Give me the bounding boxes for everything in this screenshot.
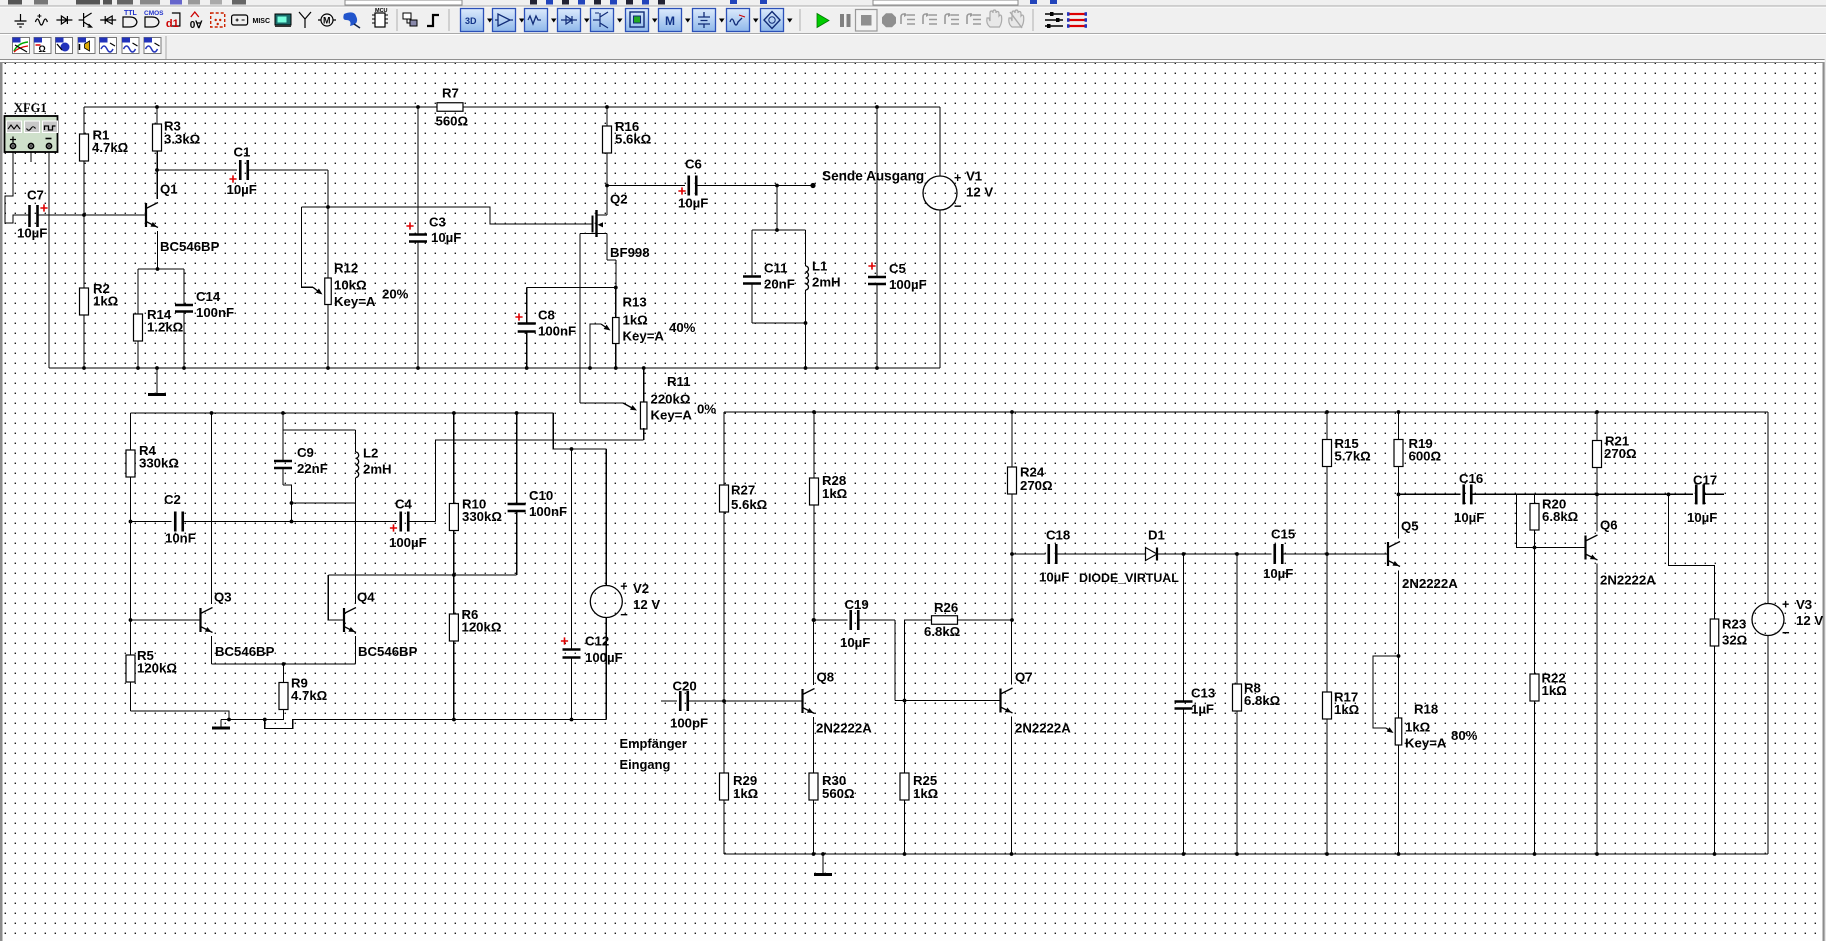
svg-text:M: M — [323, 16, 331, 26]
svg-text:C17: C17 — [1693, 473, 1717, 488]
svg-text:C19: C19 — [845, 597, 869, 612]
svg-text:0%: 0% — [697, 402, 716, 417]
svg-text:120kΩ: 120kΩ — [462, 620, 502, 635]
svg-text:1kΩ: 1kΩ — [822, 486, 848, 501]
svg-text:d1: d1 — [166, 18, 179, 30]
svg-text:10nF: 10nF — [165, 531, 196, 546]
svg-text:6.8kΩ: 6.8kΩ — [924, 624, 961, 639]
svg-text:1kΩ: 1kΩ — [1334, 702, 1360, 717]
svg-text:−: − — [620, 607, 628, 622]
svg-text:V1: V1 — [966, 169, 982, 184]
svg-text:100nF: 100nF — [538, 324, 576, 339]
svg-text:C16: C16 — [1459, 471, 1483, 486]
svg-text:C10: C10 — [529, 488, 553, 503]
svg-text:C8: C8 — [538, 308, 555, 323]
svg-text:CMOS: CMOS — [144, 10, 164, 17]
svg-text:C14: C14 — [196, 289, 221, 304]
svg-text:L2: L2 — [363, 446, 378, 461]
svg-text:330kΩ: 330kΩ — [139, 456, 179, 471]
svg-text:4.7kΩ: 4.7kΩ — [291, 688, 328, 703]
svg-text:3.3kΩ: 3.3kΩ — [164, 131, 201, 146]
svg-text:1kΩ: 1kΩ — [93, 294, 119, 309]
svg-text:1.2kΩ: 1.2kΩ — [147, 320, 184, 335]
svg-text:D1: D1 — [1148, 528, 1165, 543]
svg-text:10µF: 10µF — [840, 635, 870, 650]
svg-text:V3: V3 — [1796, 597, 1812, 612]
svg-text:C7: C7 — [27, 188, 44, 203]
svg-text:C3: C3 — [429, 215, 446, 230]
svg-text:C6: C6 — [685, 157, 702, 172]
svg-text:XFG1: XFG1 — [14, 101, 47, 115]
svg-text:10µF: 10µF — [227, 182, 257, 197]
svg-text:10µF: 10µF — [1454, 510, 1484, 525]
svg-text:Key=A: Key=A — [651, 408, 693, 423]
svg-text:100µF: 100µF — [389, 535, 427, 550]
svg-text:220kΩ: 220kΩ — [651, 392, 691, 407]
svg-text:R18: R18 — [1414, 702, 1438, 717]
svg-text:R23: R23 — [1722, 616, 1746, 631]
svg-text:Eingang: Eingang — [620, 757, 671, 772]
svg-text:MCU: MCU — [375, 8, 388, 14]
svg-text:C9: C9 — [297, 445, 314, 460]
svg-text:Empfänger: Empfänger — [620, 736, 687, 751]
svg-text:−: − — [1782, 625, 1790, 640]
svg-text:6.8kΩ: 6.8kΩ — [1542, 509, 1579, 524]
svg-text:C5: C5 — [889, 261, 906, 276]
svg-text:C13: C13 — [1191, 686, 1215, 701]
svg-text:R13: R13 — [623, 295, 647, 310]
svg-text:1kΩ: 1kΩ — [1405, 720, 1431, 735]
svg-text:C15: C15 — [1271, 527, 1295, 542]
svg-text:Q8: Q8 — [817, 670, 835, 685]
svg-text:5.7kΩ: 5.7kΩ — [1335, 449, 1372, 464]
svg-text:L1: L1 — [812, 259, 827, 274]
svg-text:−: − — [954, 199, 962, 214]
svg-text:3D: 3D — [465, 16, 477, 26]
svg-text:100pF: 100pF — [670, 716, 708, 731]
svg-text:330kΩ: 330kΩ — [462, 509, 502, 524]
svg-text:100nF: 100nF — [529, 504, 567, 519]
svg-text:C20: C20 — [673, 679, 697, 694]
svg-text:100µF: 100µF — [585, 650, 623, 665]
svg-text:2N2222A: 2N2222A — [1600, 573, 1656, 588]
svg-text:R12: R12 — [334, 261, 358, 276]
svg-text:+: + — [1782, 598, 1789, 612]
svg-text:C11: C11 — [764, 261, 787, 276]
svg-text:20nF: 20nF — [764, 277, 795, 292]
svg-text:C12: C12 — [585, 634, 609, 649]
svg-text:+: + — [620, 580, 627, 594]
svg-text:10µF: 10µF — [678, 196, 708, 211]
svg-text:5.6kΩ: 5.6kΩ — [731, 497, 768, 512]
svg-text:2mH: 2mH — [812, 275, 841, 290]
svg-text:12 V: 12 V — [1796, 613, 1823, 628]
svg-text:R26: R26 — [934, 600, 958, 615]
svg-text:DIODE_VIRTUAL: DIODE_VIRTUAL — [1079, 571, 1179, 585]
svg-text:4.7kΩ: 4.7kΩ — [92, 140, 129, 155]
svg-text:100nF: 100nF — [196, 305, 234, 320]
svg-text:560Ω: 560Ω — [822, 786, 855, 801]
svg-text:Q2: Q2 — [610, 192, 628, 207]
svg-text:C18: C18 — [1046, 528, 1070, 543]
svg-text:10µF: 10µF — [1263, 566, 1293, 581]
svg-text:270Ω: 270Ω — [1604, 446, 1637, 461]
svg-text:10kΩ: 10kΩ — [334, 278, 367, 293]
svg-text:10µF: 10µF — [1687, 510, 1717, 525]
svg-text:C4: C4 — [395, 497, 413, 512]
svg-text:R27: R27 — [731, 483, 755, 498]
svg-text:100µF: 100µF — [889, 277, 927, 292]
svg-text:2N2222A: 2N2222A — [1402, 576, 1458, 591]
svg-text:R7: R7 — [442, 86, 459, 101]
svg-text:20%: 20% — [382, 287, 409, 302]
svg-text:1kΩ: 1kΩ — [1542, 683, 1568, 698]
svg-text:560Ω: 560Ω — [436, 114, 469, 129]
svg-text:Q4: Q4 — [357, 590, 375, 605]
svg-text:Sende Ausgang: Sende Ausgang — [822, 168, 924, 183]
svg-text:1µF: 1µF — [1191, 702, 1214, 717]
svg-text:Key=A: Key=A — [623, 329, 665, 344]
svg-text:2mH: 2mH — [363, 462, 392, 477]
svg-text:MISC: MISC — [253, 18, 271, 25]
svg-text:Q5: Q5 — [1401, 519, 1419, 534]
svg-text:BC546BP: BC546BP — [358, 644, 418, 659]
svg-text:600Ω: 600Ω — [1409, 449, 1442, 464]
svg-text:BC546BP: BC546BP — [160, 239, 220, 254]
svg-text:22nF: 22nF — [297, 461, 328, 476]
svg-text:0∀: 0∀ — [190, 20, 204, 31]
svg-text:C1: C1 — [234, 144, 251, 159]
svg-text:Key=A: Key=A — [1405, 736, 1447, 751]
svg-text:1kΩ: 1kΩ — [913, 786, 939, 801]
svg-text:10µF: 10µF — [1039, 570, 1069, 585]
svg-text:2N2222A: 2N2222A — [816, 721, 872, 736]
svg-text:Q6: Q6 — [1600, 518, 1618, 533]
svg-text:+: + — [954, 171, 961, 185]
svg-text:1kΩ: 1kΩ — [733, 786, 759, 801]
svg-text:80%: 80% — [1451, 728, 1478, 743]
svg-text:5.6kΩ: 5.6kΩ — [615, 132, 652, 147]
svg-text:Q7: Q7 — [1015, 670, 1033, 685]
svg-text:Q3: Q3 — [214, 590, 232, 605]
svg-text:10µF: 10µF — [431, 230, 461, 245]
svg-text:120kΩ: 120kΩ — [137, 661, 177, 676]
svg-text:1kΩ: 1kΩ — [623, 313, 649, 328]
svg-text:12 V: 12 V — [966, 185, 993, 200]
svg-text:2N2222A: 2N2222A — [1015, 721, 1071, 736]
svg-text:BF998: BF998 — [610, 245, 650, 260]
svg-text:40%: 40% — [669, 320, 696, 335]
svg-text:TTL: TTL — [124, 10, 138, 17]
svg-text:C2: C2 — [164, 492, 181, 507]
svg-text:BC546BP: BC546BP — [215, 644, 275, 659]
svg-text:12 V: 12 V — [633, 597, 660, 612]
svg-text:M: M — [665, 14, 675, 28]
svg-text:R11: R11 — [667, 374, 690, 389]
svg-text:32Ω: 32Ω — [1722, 632, 1748, 647]
svg-text:10µF: 10µF — [17, 226, 47, 241]
svg-text:V2: V2 — [633, 581, 649, 596]
svg-text:6.8kΩ: 6.8kΩ — [1244, 693, 1281, 708]
svg-text:Q1: Q1 — [160, 182, 178, 197]
svg-text:Key=A: Key=A — [334, 294, 376, 309]
svg-text:270Ω: 270Ω — [1020, 478, 1053, 493]
